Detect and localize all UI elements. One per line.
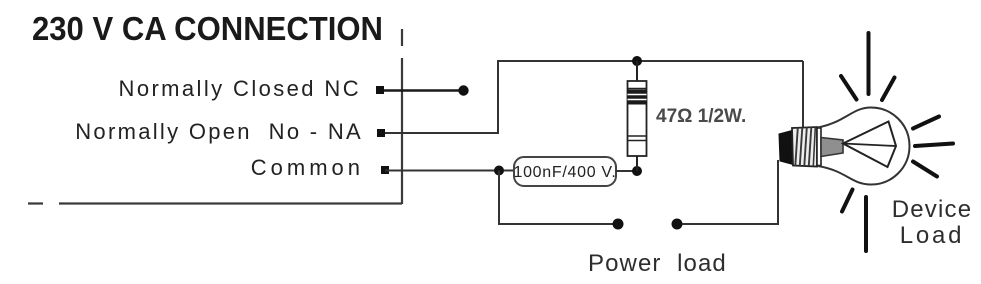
capacitor C1 body <box>514 157 616 186</box>
svg-text:230 V CA CONNECTION: 230 V CA CONNECTION <box>32 10 383 47</box>
resistor R1 body <box>628 81 647 156</box>
ray right-up <box>913 117 939 129</box>
ray bottom-left <box>842 190 853 212</box>
lamp glass envelope <box>818 108 910 185</box>
ray right horizontal <box>915 144 953 147</box>
terminal square Common <box>381 166 389 174</box>
wire capacitor to resistor <box>616 170 637 172</box>
svg-text:Power load: Power load <box>588 250 727 277</box>
ray top vertical <box>867 33 871 94</box>
terminal square NC <box>376 86 384 94</box>
svg-text:Device: Device <box>892 196 973 223</box>
svg-text:Normally Open No - NA: Normally Open No - NA <box>75 119 363 144</box>
svg-text:Normally Closed NC: Normally Closed NC <box>119 76 361 101</box>
relay box dashed border (vertical) <box>401 29 403 204</box>
ray upper-right <box>882 78 895 101</box>
resistor R1 leads <box>636 61 638 171</box>
lamp collar <box>817 128 821 166</box>
wire common down to bottom rail <box>499 171 613 225</box>
svg-text:100nF/400 V.: 100nF/400 V. <box>513 164 616 181</box>
svg-text:47Ω 1/2W.: 47Ω 1/2W. <box>656 106 746 127</box>
node common junction <box>494 166 504 176</box>
wire lamp right drop <box>802 61 804 127</box>
ray bottom vertical <box>864 197 868 251</box>
node NC contact end dot <box>458 85 468 95</box>
wire NC contact <box>384 89 460 92</box>
ray right-down <box>913 162 937 177</box>
svg-text:Load: Load <box>900 222 965 249</box>
lamp screw base threads <box>792 127 817 167</box>
ray upper-left <box>841 76 857 100</box>
lamp contact tip <box>779 131 793 165</box>
relay box dashed border (bottom horizontal) <box>28 202 402 204</box>
node switch right dot <box>672 219 683 230</box>
node resistor bottom <box>632 166 642 176</box>
svg-text:Common: Common <box>251 155 364 180</box>
lamp filament cone <box>843 122 896 168</box>
wire bottom rail to lamp <box>682 160 778 224</box>
lamp inner stem <box>821 138 843 157</box>
node top of resistor <box>632 56 642 66</box>
wire NO to top rail <box>385 61 803 133</box>
node switch left dot <box>613 219 624 230</box>
wire Common to capacitor <box>385 170 514 172</box>
terminal square NO <box>377 129 385 137</box>
